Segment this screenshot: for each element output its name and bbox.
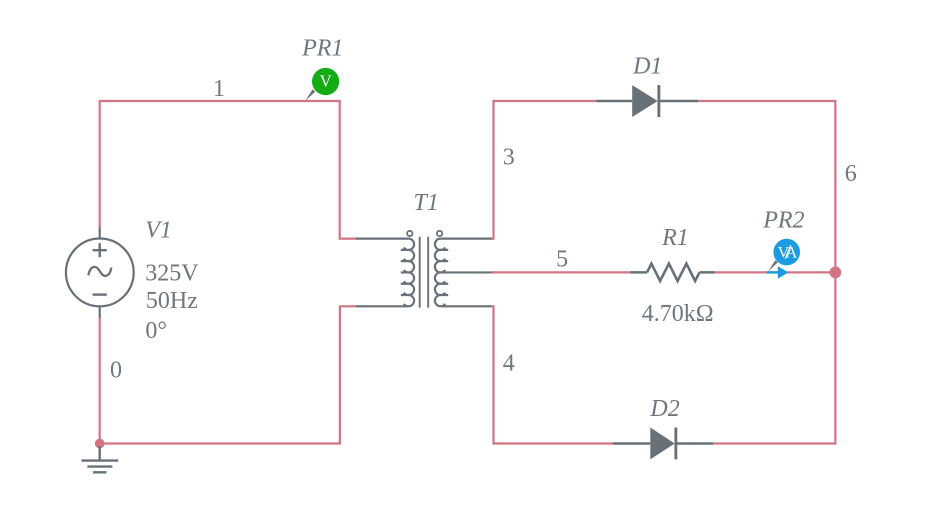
svg-text:0°: 0° [145,318,167,344]
probe PR2 needle [768,260,778,271]
secondary winding turns [435,239,445,307]
svg-text:1: 1 [213,76,225,102]
svg-text:325V: 325V [145,260,199,286]
transformer T1 primary leads and cusp ticks [356,239,408,307]
resistor R1 [631,264,715,281]
svg-text:50Hz: 50Hz [146,288,198,314]
svg-text:5: 5 [556,246,568,272]
probe PR2 [773,239,800,266]
wire: secondary bottom to D2 anode (net 4) [491,306,613,443]
svg-text:D1: D1 [632,54,662,80]
svg-text:R1: R1 [661,225,689,251]
wire: D1 cathode to right rail down to D2 (net 6) [698,101,835,444]
svg-text:0: 0 [110,358,122,384]
wire: R1 to node 6 junction [715,271,836,273]
svg-text:4.70kΩ: 4.70kΩ [642,301,714,327]
diode D1 [596,85,698,117]
svg-text:D2: D2 [649,396,679,422]
svg-text:V1: V1 [145,218,172,244]
diode D2 [613,428,713,460]
ground [82,446,119,472]
svg-text:4: 4 [503,351,515,377]
secondary leads and cusp ticks [441,239,492,307]
secondary polarity dot [437,231,442,236]
primary polarity dot [407,231,412,236]
svg-text:V: V [320,72,332,91]
wire: secondary top to D1 (net 3) [491,101,596,239]
probe PR2 arrow [767,266,789,279]
svg-text:T1: T1 [414,190,439,216]
probe PR1 [312,68,339,95]
probe PR1 needle [305,89,315,101]
svg-text:6: 6 [845,161,857,187]
wire: V1 top to transformer primary top (net 1) [100,101,357,239]
source V1 [66,228,134,318]
wire: center tap to R1 (net 5) [491,271,631,273]
svg-text:PR1: PR1 [301,36,343,62]
wire: primary bottom return and V1 bottom to ground (net 0) [100,306,357,443]
primary winding turns [404,239,414,307]
svg-text:PR2: PR2 [762,208,804,234]
junction node 6 dot [830,267,842,279]
junction ground node dot [95,439,105,449]
core lines [420,237,429,308]
svg-text:3: 3 [503,145,515,171]
